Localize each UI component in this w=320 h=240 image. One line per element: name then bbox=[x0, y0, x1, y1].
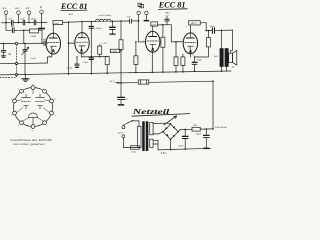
svg-text:4Ω: 4Ω bbox=[232, 67, 235, 69]
choke mit Dr bbox=[96, 14, 112, 21]
node grid line x42 bbox=[41, 42, 43, 44]
svg-text:1µF: 1µF bbox=[165, 15, 169, 17]
svg-text:150 V: 150 V bbox=[190, 22, 197, 25]
ground left branch bbox=[1, 56, 5, 57]
fuse box on B+ feed bbox=[138, 80, 149, 84]
output transformer bottom leads bbox=[221, 67, 227, 72]
speaker bbox=[229, 51, 237, 69]
wire grid signal line bbox=[0, 42, 43, 44]
socket pin 7 bbox=[43, 121, 47, 125]
svg-text:5kΩ: 5kΩ bbox=[214, 56, 218, 58]
svg-text:≈100µF: ≈100µF bbox=[94, 27, 102, 30]
socket pin 2 bbox=[20, 89, 24, 93]
svg-text:8: 8 bbox=[192, 55, 193, 57]
grid resistor box x135.9 bbox=[134, 42, 138, 73]
cathode bypass cap 50uF tube4 bbox=[191, 54, 209, 72]
svg-text:0,1A: 0,1A bbox=[131, 150, 136, 153]
TA terminal 1 bbox=[137, 11, 140, 21]
PSU ground line bbox=[158, 148, 211, 150]
svg-text:2: 2 bbox=[143, 40, 144, 42]
capacitor 10nF bbox=[20, 19, 25, 25]
svg-text:8: 8 bbox=[83, 55, 84, 57]
bridge rectifier bbox=[162, 124, 179, 141]
wire to tube4 grid bbox=[171, 25, 183, 43]
switch gang dashed linkage bbox=[0, 45, 17, 78]
series cap 1uF on rail bbox=[127, 16, 131, 23]
op tube V2 ECC81b bbox=[75, 33, 89, 54]
socket pin 9 bbox=[50, 99, 54, 103]
wire cap to tube1 grid bbox=[46, 42, 47, 44]
screen resistor box right bbox=[206, 30, 210, 57]
svg-text:50kΩ: 50kΩ bbox=[54, 23, 59, 25]
mains switch bbox=[124, 120, 139, 126]
svg-text:3: 3 bbox=[49, 56, 50, 58]
capacitor 5nF bbox=[8, 19, 13, 25]
svg-text:140V: 140V bbox=[151, 24, 157, 26]
plate resistor box above tube1 bbox=[53, 21, 63, 34]
resistor box2 to ground bbox=[105, 57, 109, 75]
node left branch bbox=[3, 43, 5, 45]
svg-text:ECC 81: ECC 81 bbox=[60, 2, 88, 11]
heater winding leads bbox=[153, 140, 158, 150]
cathode resistor tube4 bbox=[181, 54, 185, 73]
power transformer heater secondary bbox=[150, 139, 153, 147]
wire cap to resistor bbox=[15, 29, 30, 31]
wire feedback line bbox=[0, 54, 52, 64]
svg-text:50µF: 50µF bbox=[178, 145, 184, 147]
svg-text:8µF: 8µF bbox=[124, 99, 128, 101]
terminal E bbox=[40, 5, 44, 14]
B+ feed line lower bbox=[120, 80, 214, 83]
wire resistor to grid line bbox=[39, 30, 42, 43]
ground symbol at x25.5 bbox=[22, 75, 29, 82]
svg-text:0,3MΩ: 0,3MΩ bbox=[111, 51, 117, 53]
cathode bypass cap 10uF on same line bbox=[83, 58, 94, 64]
svg-text:25nF: 25nF bbox=[31, 19, 36, 21]
B+ riser to PSU bbox=[212, 81, 214, 129]
socket diagram ECC81 base bbox=[11, 84, 57, 132]
ground of terminal E bbox=[38, 22, 45, 29]
switch contact on ground bus bbox=[15, 73, 17, 75]
svg-text:0,1µF: 0,1µF bbox=[31, 58, 37, 60]
socket pin 3 bbox=[13, 99, 17, 103]
svg-text:50 V: 50 V bbox=[110, 81, 115, 83]
capacitor 1uF input bbox=[11, 26, 15, 33]
smoothing resistor 2k bbox=[192, 125, 200, 131]
svg-text:E: E bbox=[40, 5, 42, 9]
label 50V arrow at B+ start bbox=[110, 81, 120, 83]
series cap 50uF on output rail bbox=[210, 26, 216, 33]
B+ riser x121 with screen resistor box bbox=[119, 20, 123, 83]
boxed label 0,3M with wire to riser bbox=[110, 49, 121, 53]
switch contact on signal line bbox=[15, 42, 17, 44]
voltage box 140V above tube3 bbox=[151, 22, 158, 32]
socket pin 6 bbox=[31, 125, 35, 129]
mains terminal N bbox=[122, 135, 125, 146]
svg-text:von unten gesehen: von unten gesehen bbox=[13, 142, 45, 146]
resistor 0,1M input bbox=[29, 29, 38, 38]
svg-text:a 3: a 3 bbox=[26, 6, 30, 10]
potentiometer volume bbox=[22, 43, 29, 74]
socket pin connector lines bbox=[16, 89, 49, 121]
power transformer core bbox=[142, 121, 148, 151]
wire input bus bbox=[2, 21, 48, 23]
socket pin 5 bbox=[20, 121, 24, 125]
svg-text:a 1: a 1 bbox=[3, 6, 7, 10]
grid leak vertical wire x68.5 bbox=[68, 21, 70, 74]
wire grid tube2 bbox=[69, 42, 75, 44]
TA terminal 2 with ground bbox=[144, 11, 150, 21]
filter cap 100uF first bbox=[89, 21, 94, 75]
wire cathode tube2 network bbox=[81, 53, 107, 57]
title ECC 81 left bbox=[60, 2, 88, 11]
grid leak resistor tube4 bbox=[174, 42, 178, 73]
wire a1 branch down bbox=[6, 23, 12, 31]
svg-text:6,3V~: 6,3V~ bbox=[161, 152, 168, 155]
socket pin numbers bbox=[11, 84, 57, 132]
svg-text:0·−2 V: 0·−2 V bbox=[101, 43, 108, 45]
socket pin 10 bbox=[43, 89, 47, 93]
op tube V4 ECC81d bbox=[183, 33, 197, 54]
wire HV bottom to bridge bbox=[153, 132, 163, 134]
terminal a1 bbox=[3, 6, 8, 15]
svg-text:7: 7 bbox=[73, 41, 74, 43]
ground bus main bbox=[0, 71, 231, 75]
wire node down to grid line bbox=[23, 30, 25, 43]
filter cap 100uF second with own ground bbox=[110, 20, 116, 34]
title Netzteil bbox=[131, 108, 189, 116]
socket heater arc bbox=[28, 113, 37, 125]
TA jack icon bbox=[138, 3, 143, 8]
svg-text:3: 3 bbox=[149, 54, 150, 56]
cathode bypass cap tube1 bbox=[75, 56, 79, 67]
svg-text:1µF: 1µF bbox=[11, 26, 15, 28]
op tube V3 ECC81c bbox=[146, 31, 160, 52]
reservoir cap 50uF first bbox=[178, 129, 188, 149]
svg-text:Rö 1: Rö 1 bbox=[69, 13, 74, 16]
wire a1 to bus bbox=[5, 15, 7, 23]
title ECC 81 right bbox=[158, 1, 187, 10]
arrow mark over rectifier bbox=[164, 116, 177, 125]
svg-text:a 2: a 2 bbox=[15, 6, 19, 10]
plate resistor tube3 bbox=[161, 25, 165, 73]
svg-text:300V/90mA: 300V/90mA bbox=[215, 126, 227, 129]
op tube V1 ECC81a bbox=[46, 33, 60, 54]
svg-text:10µF: 10µF bbox=[83, 62, 89, 64]
terminal a3 bbox=[26, 6, 31, 15]
svg-text:50µF: 50µF bbox=[196, 134, 202, 136]
capacitor Rg branch left bbox=[1, 44, 6, 56]
wire rail down to speaker bbox=[231, 30, 233, 53]
svg-text:10nF: 10nF bbox=[20, 19, 25, 21]
node pot on ground bus bbox=[24, 74, 26, 76]
bridge output wire to resistor bbox=[178, 129, 192, 132]
svg-text:50µF: 50µF bbox=[197, 60, 203, 62]
coupling capacitor 0,1uF to grid bbox=[41, 39, 47, 45]
wire E to bus bbox=[41, 14, 43, 23]
filter cap 8uF bbox=[118, 83, 128, 106]
B+ rail first stages bbox=[82, 20, 138, 23]
tube pin numbers specks bbox=[44, 31, 194, 59]
wire box to rail bbox=[63, 21, 82, 24]
coupling cap at x167 bbox=[165, 17, 169, 25]
power transformer HV secondary bbox=[150, 123, 153, 135]
power transformer primary bbox=[138, 126, 141, 147]
svg-text:7: 7 bbox=[181, 40, 182, 42]
bridge bottom to ground line bbox=[170, 139, 172, 149]
output transformer bbox=[220, 48, 229, 67]
socket pin 4 bbox=[13, 111, 17, 115]
wire resistor to output bbox=[200, 128, 214, 130]
wire a3 to bus bbox=[28, 15, 30, 23]
terminal a2 bbox=[15, 6, 20, 15]
svg-text:ECC 81: ECC 81 bbox=[158, 1, 186, 10]
cathode tube3 to ground bbox=[152, 52, 154, 73]
svg-text:≈50µF: ≈50µF bbox=[66, 67, 73, 70]
output transformer primary lead up bbox=[221, 30, 223, 48]
switch contact on feedback line bbox=[15, 62, 17, 64]
svg-text:0,1MΩ: 0,1MΩ bbox=[30, 36, 36, 38]
wire box150V to output rail bbox=[200, 23, 206, 31]
node at x23.8 y30 bbox=[23, 30, 25, 32]
smoothing cap 50uF second bbox=[196, 128, 209, 149]
svg-text:220V~: 220V~ bbox=[118, 132, 125, 134]
svg-text:2: 2 bbox=[44, 41, 45, 43]
svg-text:mit Dr.(1mH): mit Dr.(1mH) bbox=[99, 14, 112, 17]
node grid line x23.8 bbox=[24, 43, 26, 45]
fuse 0,1A bbox=[123, 146, 139, 154]
socket internal triode a bbox=[22, 94, 31, 109]
capacitor 25nF bbox=[31, 19, 36, 25]
grid riser from rail to tube3 bbox=[135, 21, 146, 43]
svg-text:a: a bbox=[186, 26, 187, 28]
wire plate tube2 to rail bbox=[81, 21, 83, 33]
cathode resistor tube2 bbox=[98, 45, 102, 58]
socket internal triode b bbox=[36, 94, 45, 109]
wire a2 to bus bbox=[18, 15, 20, 23]
wire HV top to bridge bbox=[153, 123, 170, 124]
junction dots on bus bbox=[5, 22, 42, 24]
svg-text:2kΩ: 2kΩ bbox=[193, 125, 197, 127]
socket pin 8 bbox=[50, 111, 54, 115]
mains terminal L bbox=[122, 125, 125, 129]
output B+ rail right bbox=[205, 30, 232, 32]
voltage box 150V above tube4 bbox=[186, 21, 200, 33]
svg-text:50µF: 50µF bbox=[210, 26, 216, 28]
interstage line y24.8 bbox=[158, 24, 172, 26]
svg-text:1µF: 1µF bbox=[127, 16, 131, 18]
socket pin 1 bbox=[31, 86, 35, 90]
